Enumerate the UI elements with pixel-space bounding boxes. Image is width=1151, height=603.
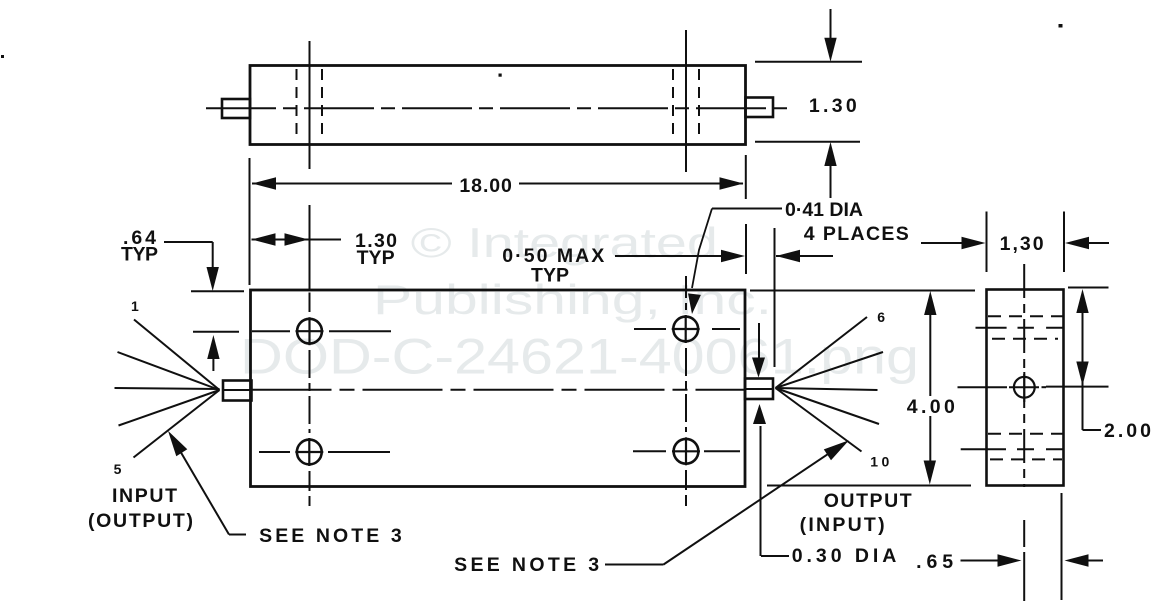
right fan lead 9	[776, 388, 880, 424]
side view top hidden line 1	[988, 315, 1063, 317]
svg-text:TYP: TYP	[121, 244, 158, 266]
hole bottom-right	[674, 439, 699, 464]
top view left pin	[222, 99, 250, 118]
svg-text:SEE NOTE 3: SEE NOTE 3	[259, 525, 402, 547]
stray dot	[1059, 24, 1063, 28]
top view left hole centerline	[309, 41, 311, 169]
svg-text:0·41 DIA: 0·41 DIA	[785, 199, 863, 221]
dim 4.00: dimension line and arrows	[929, 308, 931, 396]
stray dot	[1, 55, 4, 58]
dim 1.30 TYP: arrows	[252, 239, 309, 241]
dim 18.00: extension lines	[249, 158, 251, 285]
hole top-left	[297, 319, 322, 344]
svg-text:0.30 DIA: 0.30 DIA	[792, 545, 897, 567]
hole top-left side dashes	[252, 330, 290, 332]
dim .65: right extension line below side view	[1061, 493, 1063, 600]
top view centerline	[206, 107, 792, 109]
right fan lead 8	[776, 388, 878, 390]
dim 0.50 MAX TYP: extension lines	[745, 224, 747, 274]
svg-text:1,30: 1,30	[1000, 233, 1044, 255]
right fan lead 10	[776, 388, 862, 452]
svg-text:SEE NOTE 3: SEE NOTE 3	[454, 554, 599, 576]
svg-text:5: 5	[114, 461, 122, 477]
svg-text:6: 6	[877, 309, 885, 325]
hole column centerline right	[685, 276, 687, 310]
left fan lead 2	[118, 352, 220, 390]
top view right hole centerline	[685, 30, 687, 172]
side view vertical centerline	[1023, 264, 1025, 487]
hole top-right	[673, 317, 698, 342]
dim 1.30 top-view height: arrows	[830, 9, 832, 45]
dim .64 TYP: extension line at hole centerline	[193, 331, 239, 333]
svg-text:OUTPUT: OUTPUT	[824, 490, 912, 512]
main view body	[251, 290, 746, 487]
svg-text:INPUT: INPUT	[112, 485, 177, 507]
right fan lead 7	[776, 352, 884, 388]
svg-text:4 PLACES: 4 PLACES	[804, 223, 909, 245]
dim 0.50 MAX TYP: dimension line and arrows	[615, 255, 725, 257]
svg-text:(OUTPUT): (OUTPUT)	[88, 510, 193, 532]
side view top centerline row	[976, 327, 1007, 329]
hole column centerline left	[309, 293, 311, 313]
svg-text:TYP: TYP	[357, 247, 395, 269]
side view top hidden line 2	[992, 338, 1058, 340]
side view body	[987, 290, 1064, 486]
dim 2.00: dimension line and arrows	[1082, 305, 1084, 430]
dim .65: arrows	[961, 560, 1001, 562]
main view centerline	[252, 389, 746, 391]
dim 1,30 side view: arrows	[921, 242, 965, 244]
left fan lead 3	[115, 388, 220, 389]
dim 0.41 DIA: leader	[712, 208, 782, 210]
top view left hole hidden lines	[296, 69, 298, 141]
hole top-right side dashes	[634, 328, 666, 330]
side view hole	[1014, 377, 1035, 398]
dim 1,30 side view: extension lines	[986, 212, 988, 273]
dim 0.30 DIA: leader	[761, 555, 789, 557]
dim 4.00: extension lines	[750, 290, 975, 292]
svg-text:10: 10	[870, 453, 889, 469]
hole bottom-left	[297, 440, 322, 465]
left fan lead 1	[134, 320, 220, 391]
side view bottom hidden line 2	[990, 458, 1062, 460]
dim .64 TYP: lower arrow	[207, 335, 219, 359]
svg-text:1.30: 1.30	[809, 95, 857, 117]
svg-text:(INPUT): (INPUT)	[800, 514, 885, 536]
dim 2.00: extension lines	[1068, 287, 1109, 289]
top view right hole hidden lines	[672, 69, 674, 141]
svg-text:2.00: 2.00	[1104, 420, 1151, 442]
dim .64 TYP: leader	[164, 241, 213, 243]
dim 1.30 top-view height: extension lines	[755, 61, 862, 63]
left fan lead 4	[119, 390, 220, 426]
right fan lead 6	[776, 317, 868, 388]
main view right pin	[745, 379, 773, 400]
side view bottom centerline row	[961, 448, 1006, 450]
dim 0.30 DIA: upper arrow	[758, 323, 760, 360]
svg-text:TYP: TYP	[531, 265, 569, 287]
svg-text:.65: .65	[916, 551, 953, 573]
svg-text:1: 1	[131, 298, 139, 314]
see note 3 left: leader	[229, 534, 246, 536]
dim 1.30 TYP: hole column extension	[309, 205, 311, 289]
dim 18.00: dimension line	[252, 183, 452, 185]
stray dot	[499, 74, 502, 77]
svg-text:4.00: 4.00	[907, 396, 955, 418]
main view left pin	[223, 381, 252, 401]
see note 3 bottom: leader	[605, 564, 664, 566]
top view right pin	[746, 98, 774, 118]
side view hole horizontal centerline	[958, 386, 1008, 388]
dim .64 TYP: extension line top	[191, 290, 244, 292]
top view body	[250, 66, 746, 145]
svg-text:Publishing, Inc.: Publishing, Inc.	[373, 276, 772, 323]
side view bottom hidden line 1	[988, 433, 1063, 435]
left fan lead 5	[134, 390, 220, 458]
hole bottom-left side dashes	[259, 451, 290, 453]
hole bottom-right side dashes	[633, 450, 666, 452]
svg-text:18.00: 18.00	[459, 175, 512, 197]
